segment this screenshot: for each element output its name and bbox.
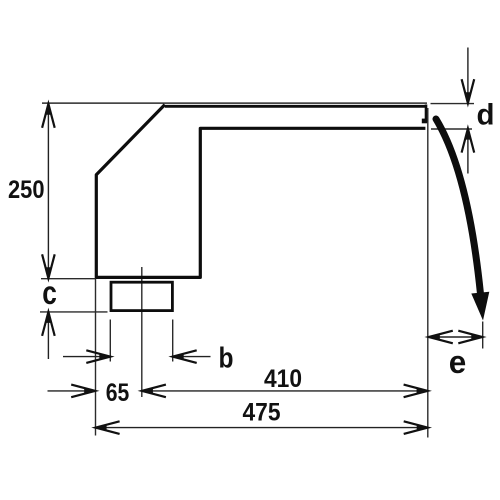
foot rectangle xyxy=(111,282,172,310)
arrowhead d top (down) xyxy=(462,79,475,103)
body outline: chamfer, left edge, bottom edge, inner right edge, blade underside xyxy=(96,105,425,278)
svg-text:475: 475 xyxy=(243,399,281,427)
blade tip vertical edge xyxy=(425,105,428,123)
extension line c-bottom (foot bottom face, extended left) xyxy=(40,311,108,313)
svg-text:250: 250 xyxy=(8,176,45,204)
extension line left vertical (body left face, extended down) xyxy=(95,279,97,436)
arrowhead 65 left (pointing right) xyxy=(71,385,95,398)
extension line top (blade top face, extended left) xyxy=(42,102,427,104)
dimension d lower shaft xyxy=(467,129,469,174)
dimension line 410 shaft xyxy=(142,390,428,392)
water stream curved arrow xyxy=(436,119,480,293)
dimension c lower arrow shaft xyxy=(47,312,49,359)
extension line c-top (body bottom face, extended left) xyxy=(41,278,96,280)
arrowhead 475 right (pointing right) xyxy=(404,421,428,434)
arrowhead c bottom (up) xyxy=(42,312,55,336)
arrowhead e right (pointing right) xyxy=(458,331,482,344)
dimension e shaft xyxy=(429,336,483,338)
svg-text:b: b xyxy=(219,343,234,375)
arrowhead d bottom (up) xyxy=(462,129,475,153)
svg-text:c: c xyxy=(42,274,57,311)
dimension d upper shaft xyxy=(467,48,469,103)
extension line d-bottom (right of blade tip) xyxy=(431,128,472,130)
arrowhead 250 bottom / c top (down) xyxy=(42,254,55,278)
extension line foot-left edge down xyxy=(109,320,111,362)
extension line d-top (right of blade tip) xyxy=(431,103,475,105)
arrowhead 410 right (pointing right) xyxy=(404,385,428,398)
arrowhead b left (pointing right at foot-left) xyxy=(86,350,110,363)
extension line e-right tick xyxy=(482,322,484,349)
arrowhead 250 top (up) xyxy=(42,104,55,128)
svg-text:410: 410 xyxy=(264,365,302,393)
dimension 65 left shaft xyxy=(48,390,96,392)
svg-text:d: d xyxy=(477,99,495,132)
extension line foot centerline xyxy=(141,267,143,397)
svg-text:65: 65 xyxy=(106,379,130,407)
extension line right vertical (blade tip, extended down) xyxy=(427,108,429,438)
blade tip lip nub xyxy=(422,119,427,124)
arrowhead e left (pointing left) xyxy=(429,331,453,344)
dimension line 250 vertical shaft xyxy=(47,104,49,278)
water stream arrowhead (filled, pointing down) xyxy=(471,292,489,321)
arrowhead b right (pointing left at foot-right) xyxy=(173,350,197,363)
arrowhead 475 left (pointing left) xyxy=(96,421,120,434)
dimension line 475 shaft xyxy=(96,427,428,429)
dimension b left shaft xyxy=(63,356,110,358)
svg-text:e: e xyxy=(449,344,467,380)
dimension b right shaft xyxy=(173,356,211,358)
extension line foot-right edge down xyxy=(172,320,174,362)
blade top thick line xyxy=(165,105,426,108)
arrowhead 410 left / 65 right (pointing left) xyxy=(142,385,166,398)
